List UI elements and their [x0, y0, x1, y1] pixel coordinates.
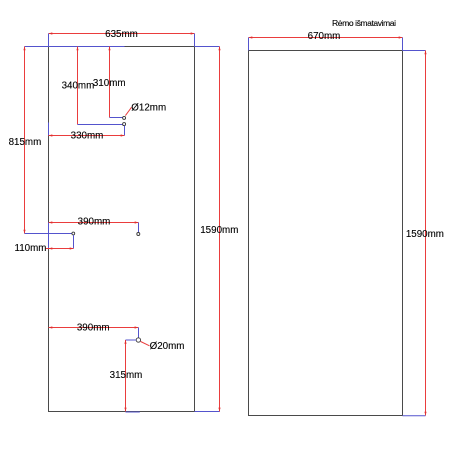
hole left mid [72, 232, 75, 235]
leader line O12 [125, 107, 131, 115]
svg-text:315mm: 315mm [110, 370, 143, 381]
hole right mid [137, 233, 140, 236]
blue extension below lower hole to 330 line [124, 126, 126, 136]
blue drop from left mid hole to 110 line [73, 235, 75, 249]
arrow top of 340mm [76, 47, 78, 51]
top blue extension line across panel top [25, 46, 125, 48]
dimension 110mm line [46, 248, 74, 250]
arrow left of 390mm lower [49, 326, 53, 328]
blue connector 340mm to lower hole [78, 124, 123, 126]
svg-text:Ø12mm: Ø12mm [131, 103, 166, 114]
svg-text:310mm: 310mm [93, 78, 126, 89]
arrow right of 390mm lower [135, 326, 139, 328]
dimension 670mm line [249, 37, 403, 39]
left panel rectangle (door leaf 635x1590) [49, 47, 195, 412]
right frame rectangle (670x1590) [249, 51, 403, 416]
arrow left of 670mm [249, 36, 253, 38]
extension right for 670mm [402, 38, 404, 51]
leader line O20 [141, 342, 150, 346]
blue connector 315 line to hole O20 [126, 339, 137, 341]
arrow left of 110mm [49, 247, 53, 249]
svg-text:390mm: 390mm [78, 216, 111, 227]
blue extension 815 end to left mid hole [25, 233, 73, 235]
dimension 310mm vertical line [109, 47, 111, 118]
dimension 390mm upper line [49, 222, 139, 224]
arrow left of 635mm [49, 32, 53, 34]
blue overdraw on left edge above 330 line [48, 123, 50, 136]
dimension 1590mm left vertical line [219, 47, 221, 412]
svg-text:340mm: 340mm [62, 80, 95, 91]
dimension 1590mm right vertical line [425, 51, 427, 416]
svg-text:1590mm: 1590mm [406, 229, 444, 240]
extension line left for 635mm [48, 34, 50, 47]
blue drop from 390 upper to hole [138, 223, 140, 233]
blue bottom extension to left 1590 line [195, 411, 220, 413]
blue drop from 390 lower to hole O20 [138, 328, 140, 338]
dimension 330mm line [49, 135, 125, 137]
arrow top of 815mm [23, 47, 25, 51]
arrow bottom of 315mm [124, 408, 126, 412]
dimension 340mm vertical line [77, 47, 79, 125]
arrow bottom of 815mm [23, 230, 25, 234]
dimension 315mm vertical line [125, 340, 127, 411]
svg-text:1590mm: 1590mm [200, 225, 238, 236]
arrow top of 310mm [108, 47, 110, 51]
svg-text:815mm: 815mm [9, 137, 42, 148]
arrow right of 670mm [399, 36, 403, 38]
hole O12 upper [123, 116, 126, 119]
extension line right for 635mm [194, 34, 196, 47]
top blue extension to 1590mm line [195, 46, 220, 48]
arrow right of 330mm [121, 134, 125, 136]
blue overdraw on left edge 390-110 [48, 223, 50, 249]
arrow top of 1590mm left [218, 47, 220, 51]
svg-text:390mm: 390mm [77, 322, 110, 333]
dimension 815mm vertical line [24, 47, 26, 234]
blue top extension to right 1590 line [403, 50, 426, 52]
arrow right of 635mm [191, 32, 195, 34]
dimension 635mm line [49, 33, 195, 35]
arrow right of 110mm [70, 247, 74, 249]
arrow left of 390mm upper [49, 221, 53, 223]
arrow right of 390mm upper [135, 221, 139, 223]
svg-text:Ø20mm: Ø20mm [150, 341, 185, 352]
arrow bottom of 1590mm left [218, 408, 220, 412]
svg-text:670mm: 670mm [308, 31, 341, 42]
blue bottom extension to right 1590 line [403, 415, 426, 417]
blue bottom extension 315 [126, 411, 140, 413]
arrow top of 315mm [124, 340, 126, 344]
extension left for 670mm [248, 38, 250, 51]
svg-text:110mm: 110mm [15, 243, 47, 254]
arrow top of 1590mm right [424, 51, 426, 55]
svg-text:635mm: 635mm [105, 29, 138, 40]
blue connector 310mm to upper hole [110, 117, 123, 119]
dimension 390mm lower line [49, 327, 139, 329]
svg-text:Rėmo išmatavimai: Rėmo išmatavimai [332, 18, 396, 28]
arrow left of 330mm [49, 134, 53, 136]
arrow bottom of 1590mm right [424, 412, 426, 416]
hole O12 lower [123, 123, 126, 126]
svg-text:330mm: 330mm [71, 131, 104, 142]
hole O20 [136, 338, 140, 342]
